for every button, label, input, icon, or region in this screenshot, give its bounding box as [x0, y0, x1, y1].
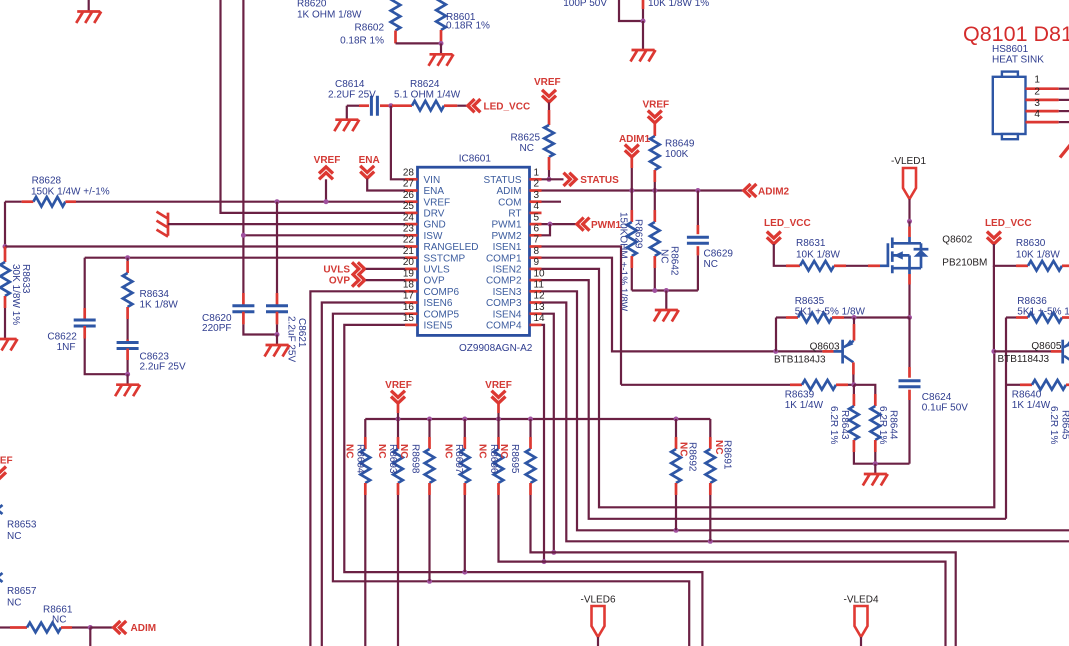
net VREF	[534, 77, 561, 102]
svg-text:HS8601: HS8601	[992, 44, 1029, 55]
wire RANGELED net	[5, 245, 405, 247]
wire	[1005, 318, 1007, 519]
svg-text:1: 1	[534, 168, 540, 179]
svg-text:C8614: C8614	[335, 79, 365, 90]
svg-text:R8602: R8602	[355, 23, 385, 34]
resistor R8653 partial	[0, 505, 37, 542]
resistor R8624	[392, 79, 467, 110]
svg-text:UVLS: UVLS	[323, 264, 350, 275]
svg-text:R8696: R8696	[488, 444, 499, 474]
svg-text:NC: NC	[659, 249, 670, 263]
resistor R8697	[442, 419, 469, 572]
svg-text:5K1 +-5% 1.: 5K1 +-5% 1.	[1017, 307, 1069, 318]
svg-text:NC: NC	[52, 615, 66, 626]
svg-text:R8657: R8657	[7, 586, 37, 597]
svg-text:RANGELED: RANGELED	[424, 242, 479, 253]
svg-text:NC: NC	[704, 259, 718, 270]
svg-text:R8645: R8645	[1060, 410, 1069, 440]
title Q8101 D8101	[963, 22, 1069, 46]
svg-text:Q8101 D8101: Q8101 D8101	[963, 22, 1069, 46]
svg-text:NC: NC	[7, 531, 21, 542]
net -VLED4	[843, 594, 878, 646]
svg-text:VREF: VREF	[534, 77, 561, 88]
net ADIM2	[744, 184, 790, 197]
svg-text:R8630: R8630	[1016, 238, 1046, 249]
svg-text:C8621: C8621	[296, 318, 307, 348]
pin 22 RANGELED	[403, 235, 479, 253]
ground	[654, 291, 679, 322]
svg-text:ISEN1: ISEN1	[493, 242, 522, 253]
pin 26 VREF	[403, 190, 450, 208]
pin 3	[1026, 98, 1069, 111]
resistor R8640	[1006, 380, 1069, 411]
partial symbol at edge	[1060, 145, 1069, 158]
svg-text:IC8601: IC8601	[459, 154, 492, 165]
wire ISEN5 net	[344, 325, 702, 646]
svg-text:R8695: R8695	[509, 444, 520, 474]
wire ISEN6 net	[322, 303, 405, 646]
resistor R8634	[123, 258, 179, 340]
svg-text:Q8602: Q8602	[942, 235, 972, 246]
svg-text:100K: 100K	[665, 149, 689, 160]
svg-text:R8631: R8631	[796, 238, 826, 249]
svg-text:COM: COM	[498, 197, 521, 208]
net LED_VCC	[468, 99, 530, 112]
svg-text:2: 2	[534, 179, 540, 190]
wire ISEN1 net	[542, 247, 622, 385]
svg-text:VREF: VREF	[385, 380, 412, 391]
wire COMP2 net	[542, 280, 1007, 519]
svg-text:19: 19	[403, 268, 415, 279]
svg-text:ISEN4: ISEN4	[493, 309, 522, 320]
pin 2	[1026, 87, 1069, 100]
wire COMP3 net	[542, 303, 1069, 544]
svg-text:LED_VCC: LED_VCC	[764, 218, 811, 229]
pin 16 COMP5	[403, 302, 460, 320]
svg-text:GND: GND	[424, 220, 446, 231]
svg-text:C8629: C8629	[704, 249, 734, 260]
wire ISEN2 net	[542, 269, 995, 507]
svg-text:-VLED6: -VLED6	[580, 594, 615, 605]
pin 14 COMP4	[486, 313, 545, 331]
svg-text:VREF: VREF	[642, 100, 669, 111]
svg-text:25: 25	[403, 201, 415, 212]
resistor R8645 partial	[1048, 406, 1069, 444]
svg-text:1K 1/8W: 1K 1/8W	[140, 300, 179, 311]
ground	[265, 335, 290, 357]
resistor R8661	[0, 604, 90, 632]
op-amp U1 IC8601 body	[418, 154, 533, 354]
node	[125, 372, 130, 377]
pin 28 VIN	[403, 168, 440, 186]
wire	[241, 0, 405, 293]
svg-text:2.2UF 25V: 2.2UF 25V	[328, 90, 376, 101]
capacitor C8622	[47, 258, 127, 375]
svg-text:BTB1184J3: BTB1184J3	[998, 354, 1050, 365]
svg-text:R8636: R8636	[1017, 296, 1047, 307]
svg-text:NC: NC	[398, 444, 409, 458]
svg-text:R8653: R8653	[7, 519, 37, 530]
wire VREF bus	[365, 417, 710, 422]
net UVLS	[323, 262, 405, 275]
svg-text:NC: NC	[343, 444, 354, 458]
svg-text:8: 8	[534, 246, 540, 257]
svg-text:RT: RT	[508, 209, 521, 220]
svg-text:R8698: R8698	[409, 444, 420, 474]
node	[388, 103, 393, 108]
svg-text:2: 2	[1034, 87, 1040, 98]
resistor R8639	[621, 380, 854, 411]
svg-text:-VLED1: -VLED1	[891, 156, 926, 167]
svg-text:VIN: VIN	[424, 175, 441, 186]
svg-text:10K 1/8W: 10K 1/8W	[796, 250, 840, 261]
resistor R8695	[498, 419, 956, 646]
pin 19 OVP	[403, 268, 445, 286]
transistor Q8602	[880, 235, 987, 275]
svg-text:Q8605: Q8605	[1031, 341, 1061, 352]
svg-text:OVP: OVP	[329, 276, 350, 287]
svg-text:100P 50V: 100P 50V	[563, 0, 607, 9]
wire	[89, 628, 91, 646]
svg-text:30K 1/8W 1%: 30K 1/8W 1%	[10, 264, 21, 325]
svg-text:ISEN3: ISEN3	[493, 287, 522, 298]
svg-text:UVLS: UVLS	[424, 265, 450, 276]
svg-text:DRV: DRV	[424, 209, 445, 220]
resistor R8657 partial	[0, 573, 37, 608]
capacitor C8614	[328, 79, 390, 116]
svg-text:1K 1/4W: 1K 1/4W	[785, 400, 824, 411]
node	[275, 332, 280, 337]
svg-text:COMP6: COMP6	[424, 287, 460, 298]
svg-text:ENA: ENA	[424, 186, 445, 197]
svg-text:ADIM2: ADIM2	[758, 186, 790, 197]
svg-text:2.2uF 25V: 2.2uF 25V	[285, 316, 296, 362]
resistor R8628	[5, 176, 110, 207]
pin 15 ISEN5	[403, 313, 453, 331]
svg-text:LED_VCC: LED_VCC	[985, 218, 1032, 229]
svg-text:2.2uF 25V: 2.2uF 25V	[140, 362, 186, 373]
net -VLED1	[891, 156, 926, 222]
svg-text:0.18R 1%: 0.18R 1%	[446, 20, 490, 31]
pin 21 SSTCMP	[403, 246, 466, 264]
capacitor C8621	[266, 202, 307, 363]
wire	[221, 0, 406, 213]
svg-text:9: 9	[534, 257, 540, 268]
capacitor C8629	[687, 191, 734, 291]
net LED_VCC flag	[764, 218, 811, 266]
node	[851, 382, 856, 387]
node	[907, 219, 912, 224]
svg-text:OVP: OVP	[424, 276, 445, 287]
svg-text:0.18R 1%: 0.18R 1%	[340, 36, 384, 47]
svg-text:27: 27	[403, 179, 415, 190]
capacitor C8620	[202, 293, 277, 335]
svg-text:5: 5	[534, 212, 540, 223]
svg-text:NC: NC	[520, 143, 534, 154]
ground	[863, 464, 888, 486]
svg-text:R8691: R8691	[721, 440, 732, 470]
node	[275, 199, 329, 204]
resistor R8643	[828, 385, 909, 464]
wire COMP4 net	[542, 325, 547, 564]
net PWM1	[542, 218, 622, 236]
pin 23 ISW	[403, 224, 443, 242]
wire ISEN3 net	[542, 291, 1069, 533]
net -VLED6	[580, 594, 615, 646]
pin 2 ADIM	[497, 179, 542, 197]
svg-text:ISW: ISW	[424, 231, 443, 242]
svg-text:Q8603: Q8603	[810, 341, 840, 352]
resistor R8649	[650, 123, 695, 191]
svg-text:STATUS: STATUS	[580, 175, 619, 186]
svg-text:26: 26	[403, 190, 415, 201]
net VREF flag	[485, 380, 512, 419]
svg-text:22: 22	[403, 235, 415, 246]
svg-text:0.1uF 50V: 0.1uF 50V	[922, 403, 968, 414]
resistor R8636	[1006, 296, 1069, 323]
wire COMP6 net	[310, 291, 405, 646]
node	[547, 177, 552, 182]
ground	[429, 43, 454, 65]
resistor R8696	[476, 419, 945, 646]
resistor R8691	[706, 419, 733, 541]
svg-text:3: 3	[1034, 98, 1040, 109]
pin 17 ISEN6	[403, 291, 453, 309]
net VREF flag	[314, 155, 341, 202]
svg-text:STATUS: STATUS	[484, 175, 522, 186]
svg-text:PB210BM: PB210BM	[942, 258, 987, 269]
svg-text:COMP5: COMP5	[424, 309, 460, 320]
node	[873, 461, 878, 466]
svg-text:R8649: R8649	[665, 139, 695, 150]
net VREF flag	[642, 100, 669, 123]
net ADIM1 flag	[619, 134, 651, 191]
resistor R8620 label	[297, 0, 362, 21]
pin 24 GND	[403, 212, 446, 230]
resistor R8602	[340, 0, 441, 47]
resistor R8635	[776, 296, 910, 323]
svg-text:PWM2: PWM2	[492, 231, 522, 242]
svg-text:COMP4: COMP4	[486, 321, 522, 332]
resistor R8692	[671, 419, 697, 530]
svg-text:R8643: R8643	[839, 410, 850, 440]
svg-text:R8628: R8628	[32, 176, 62, 187]
transistor Q8605	[994, 339, 1069, 365]
svg-text:COMP2: COMP2	[486, 276, 522, 287]
pin 20 UVLS	[403, 257, 450, 275]
svg-text:R8697: R8697	[453, 444, 464, 474]
capacitor C8623	[117, 340, 186, 375]
svg-text:3: 3	[534, 190, 540, 201]
net ADIM	[90, 621, 156, 634]
svg-text:R8642: R8642	[669, 246, 680, 276]
svg-text:10K 1/8W: 10K 1/8W	[1016, 250, 1060, 261]
node	[88, 625, 93, 630]
svg-text:NC: NC	[476, 444, 487, 458]
svg-text:R8634: R8634	[140, 289, 170, 300]
svg-text:7: 7	[534, 235, 540, 246]
svg-text:R8693: R8693	[387, 444, 398, 474]
wire	[908, 221, 910, 237]
pin 1 STATUS	[484, 168, 542, 186]
wire	[4, 202, 6, 247]
wire SSTCMP net	[85, 255, 405, 260]
svg-text:VREF: VREF	[314, 155, 341, 166]
svg-text:ADIM1: ADIM1	[619, 134, 651, 145]
svg-text:C8624: C8624	[922, 392, 952, 403]
svg-text:23: 23	[403, 224, 415, 235]
pin 1	[1026, 75, 1069, 89]
svg-text:ADIM: ADIM	[497, 186, 522, 197]
svg-text:VREF: VREF	[485, 380, 512, 391]
svg-text:R8639: R8639	[785, 390, 815, 401]
svg-text:4: 4	[534, 201, 540, 212]
svg-text:21: 21	[403, 246, 415, 257]
svg-text:ENA: ENA	[359, 155, 380, 166]
net VREF flag	[385, 380, 412, 419]
svg-text:6.2R 1%: 6.2R 1%	[877, 406, 888, 444]
svg-text:18: 18	[403, 280, 415, 291]
resistor R8698	[398, 419, 434, 581]
svg-text:PWM1: PWM1	[492, 220, 522, 231]
wire	[775, 318, 777, 352]
capacitor 100P 50V lead	[563, 0, 641, 21]
svg-text:10K 1/8W 1%: 10K 1/8W 1%	[648, 0, 709, 9]
wire ADIM net	[542, 188, 743, 193]
net LED_VCC flag	[985, 218, 1032, 352]
svg-text:NC: NC	[442, 444, 453, 458]
resistor R8601	[436, 0, 490, 43]
pin 3 COM	[498, 190, 541, 208]
pin 10 COMP2	[486, 268, 545, 286]
ground	[0, 339, 18, 351]
wire VREF net	[76, 201, 405, 203]
net OVP	[329, 274, 405, 287]
svg-text:ISEN6: ISEN6	[424, 298, 453, 309]
svg-text:5.1 OHM 1/4W: 5.1 OHM 1/4W	[394, 90, 461, 101]
svg-text:R8635: R8635	[795, 296, 825, 307]
pin 5 PWM1	[492, 212, 542, 230]
net ENA flag	[359, 155, 405, 191]
svg-text:150K 1/4W +/-1%: 150K 1/4W +/-1%	[31, 187, 110, 198]
net VREF partial	[0, 456, 13, 479]
capacitor C8624	[899, 318, 969, 464]
resistor R8694	[343, 419, 370, 646]
svg-text:VREF: VREF	[424, 197, 451, 208]
svg-text:4: 4	[1034, 109, 1040, 120]
svg-text:6.2R 1%: 6.2R 1%	[828, 406, 839, 444]
svg-text:NC: NC	[498, 444, 509, 458]
wire	[907, 274, 912, 320]
svg-text:1K 1/4W: 1K 1/4W	[1012, 400, 1051, 411]
resistor R8693	[376, 419, 403, 646]
svg-text:6: 6	[534, 224, 540, 235]
svg-text:24: 24	[403, 212, 415, 223]
pin 13 ISEN4	[493, 302, 545, 320]
node	[641, 19, 646, 24]
node	[852, 315, 857, 320]
svg-text:20: 20	[403, 257, 415, 268]
svg-text:1: 1	[1034, 75, 1040, 86]
svg-text:SSTCMP: SSTCMP	[424, 253, 466, 264]
svg-text:R8640: R8640	[1012, 390, 1042, 401]
svg-text:NC: NC	[7, 597, 21, 608]
svg-text:220PF: 220PF	[202, 323, 231, 334]
pin 8 COMP1	[486, 246, 542, 264]
svg-text:R8624: R8624	[410, 79, 440, 90]
svg-text:OZ9908AGN-A2: OZ9908AGN-A2	[459, 343, 533, 354]
wire COM stub	[542, 201, 562, 203]
resistor R8625	[511, 102, 554, 179]
resistor R8633	[0, 247, 31, 340]
pin 18 COMP6	[403, 280, 460, 298]
connector HS8601 heat sink	[992, 44, 1044, 139]
node	[991, 349, 996, 354]
ground	[334, 106, 359, 132]
node	[3, 244, 8, 249]
wire	[391, 106, 405, 180]
svg-text:ISEN5: ISEN5	[424, 321, 453, 332]
transistor Q8603	[774, 318, 854, 385]
wire ISEN4 net	[542, 314, 557, 555]
pin 11 ISEN3	[493, 280, 545, 298]
pin 12 COMP3	[486, 291, 545, 309]
svg-text:R8694: R8694	[354, 444, 365, 474]
svg-text:ISEN2: ISEN2	[493, 265, 522, 276]
net STATUS	[542, 173, 620, 186]
ground	[631, 21, 656, 62]
svg-text:6.2R 1%: 6.2R 1%	[1048, 406, 1059, 444]
pin 4 RT	[508, 201, 541, 219]
resistor R8644	[854, 385, 899, 464]
ground	[76, 0, 101, 23]
svg-text:NC: NC	[376, 444, 387, 458]
wire	[632, 288, 698, 293]
svg-text:R8692: R8692	[687, 442, 698, 472]
resistor R8630	[1016, 238, 1069, 271]
node	[439, 41, 444, 46]
ground	[157, 212, 406, 237]
svg-text:PWM1: PWM1	[591, 220, 621, 231]
resistor 10K lead	[643, 0, 709, 21]
ground	[115, 374, 140, 396]
pin 25 DRV	[403, 201, 445, 219]
pin 9 ISEN2	[493, 257, 542, 275]
svg-text:R8644: R8644	[888, 410, 899, 440]
svg-text:COMP1: COMP1	[486, 253, 522, 264]
svg-text:HEAT SINK: HEAT SINK	[992, 55, 1044, 66]
svg-text:BTB1184J3: BTB1184J3	[774, 355, 826, 366]
svg-text:1NF: 1NF	[57, 342, 76, 353]
resistor R8629	[618, 191, 644, 312]
resistor R8642	[650, 191, 680, 291]
pin 7 ISEN1	[493, 235, 542, 253]
svg-text:-VLED4: -VLED4	[843, 594, 878, 605]
pin 4	[1026, 109, 1069, 122]
svg-text:R8629: R8629	[632, 219, 643, 249]
resistor R8631	[786, 238, 880, 271]
wire COMP5 net	[333, 314, 689, 646]
svg-text:COMP3: COMP3	[486, 298, 522, 309]
pin 27 ENA	[403, 179, 445, 197]
svg-text:ADIM: ADIM	[131, 623, 157, 634]
pin 6 PWM2	[492, 224, 542, 242]
svg-text:VREF: VREF	[0, 456, 13, 467]
svg-text:1K OHM 1/8W: 1K OHM 1/8W	[297, 10, 362, 21]
svg-text:LED_VCC: LED_VCC	[484, 101, 531, 112]
svg-text:R8620: R8620	[297, 0, 327, 10]
wire COMP1 net	[542, 258, 823, 354]
